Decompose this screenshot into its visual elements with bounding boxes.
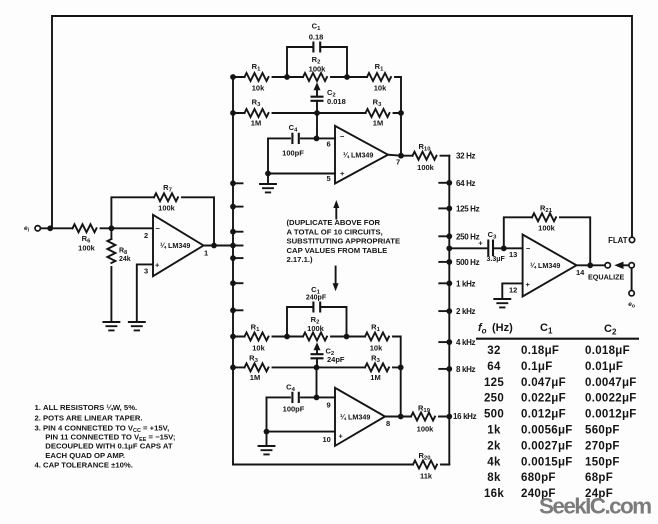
svg-text:100k: 100k (417, 425, 435, 434)
svg-text:SeekIC.com: SeekIC.com (539, 494, 651, 519)
svg-text:2. POTS ARE LINEAR TAPER.: 2. POTS ARE LINEAR TAPER. (35, 413, 143, 422)
wire: node to U2 inverting input (268, 113, 335, 138)
svg-text:8: 8 (386, 419, 390, 428)
svg-text:+: + (526, 280, 531, 289)
wire: bottom R1 line (233, 337, 401, 417)
node C3 summing junction (446, 245, 452, 251)
svg-text:68pF: 68pF (585, 472, 613, 484)
wire: bottom R3 line (233, 366, 401, 368)
potentiometer R2 body (bottom) (303, 333, 327, 341)
svg-text:1M: 1M (250, 373, 260, 382)
ground at U3 + input (494, 299, 510, 307)
capacitor C1 240pF (bottom) (287, 307, 347, 337)
svg-text:C1: C1 (540, 322, 553, 336)
resistor R1 10k (bottom right) (365, 333, 389, 341)
svg-text:125: 125 (484, 377, 504, 389)
wire: U2 output through R10 (388, 155, 449, 156)
svg-text:FLAT: FLAT (608, 236, 628, 245)
svg-text:2 kHz: 2 kHz (456, 307, 475, 316)
svg-text:250: 250 (484, 393, 504, 405)
svg-text:1k: 1k (487, 425, 501, 437)
svg-text:¼ LM349: ¼ LM349 (160, 241, 190, 250)
duplicate-section down arrow (335, 267, 337, 288)
svg-text:0.012μF: 0.012μF (521, 409, 566, 421)
svg-text:0.0027μF: 0.0027μF (521, 440, 573, 452)
capacitor C1 0.18 (top) (287, 47, 347, 77)
resistor R1 10k (top right) (367, 73, 391, 81)
ground at U1 + input (129, 322, 145, 330)
svg-text:C1: C1 (312, 22, 321, 33)
wire: node to U4 inverting input (267, 367, 336, 397)
svg-text:ei: ei (24, 225, 30, 233)
svg-text:R1: R1 (371, 323, 380, 334)
svg-text:+: + (155, 261, 160, 270)
svg-text:14: 14 (576, 268, 585, 277)
resistor R8 body (107, 239, 115, 263)
svg-text:+: + (339, 432, 344, 441)
node 64 Hz tap (439, 182, 449, 184)
svg-text:fo: fo (478, 322, 487, 336)
svg-text:A TOTAL OF 10 CIRCUITS,: A TOTAL OF 10 CIRCUITS, (287, 227, 383, 236)
svg-text:C3: C3 (488, 230, 497, 241)
pot wiper arrow (bottom) (316, 349, 318, 354)
svg-text:100pF: 100pF (283, 405, 305, 414)
svg-text:0.0015μF: 0.0015μF (521, 456, 573, 468)
svg-text:150pF: 150pF (585, 456, 620, 468)
wire: left distribution bus (232, 77, 234, 465)
svg-text:8 kHz: 8 kHz (456, 365, 475, 374)
potentiometer R2 body (303, 73, 327, 81)
svg-text:10k: 10k (252, 344, 265, 353)
pot wiper arrow (316, 89, 318, 97)
wire: C4 loop to + input and ground (268, 138, 335, 184)
wire: U1 + input to ground (137, 264, 153, 322)
svg-text:SUBSTITUTING APPROPRIATE: SUBSTITUTING APPROPRIATE (287, 237, 401, 246)
resistor R21 100k feedback (504, 217, 590, 265)
svg-text:R7: R7 (163, 183, 172, 194)
svg-text:0.018: 0.018 (327, 97, 346, 106)
wire: output summing bus (448, 156, 450, 465)
svg-text:0.18μF: 0.18μF (521, 345, 559, 357)
wire: U3 + input to ground (502, 283, 522, 299)
resistor R7 body (154, 193, 178, 201)
resistor R10 100k (413, 152, 437, 160)
svg-text:10k: 10k (374, 84, 387, 93)
svg-text:4. CAP TOLERANCE ±10%.: 4. CAP TOLERANCE ±10%. (35, 461, 133, 470)
resistor R1 10k (top left) (245, 73, 269, 81)
svg-text:100k: 100k (307, 324, 325, 333)
svg-text:R19: R19 (418, 404, 431, 415)
EQUALIZE switch contact (605, 263, 610, 268)
svg-text:125 Hz: 125 Hz (456, 204, 480, 213)
resistor R8 24k (110, 228, 112, 239)
svg-text:8k: 8k (487, 472, 501, 484)
svg-text:R3: R3 (252, 98, 261, 109)
svg-text:16k: 16k (484, 488, 504, 500)
svg-text:R1: R1 (375, 62, 384, 73)
svg-text:500: 500 (484, 409, 504, 421)
svg-text:270pF: 270pF (585, 440, 620, 452)
svg-text:1. ALL RESISTORS ¼W, 5%.: 1. ALL RESISTORS ¼W, 5%. (35, 403, 138, 412)
switch wiper arrow (614, 262, 623, 269)
wire: input to R6 (41, 227, 73, 229)
op-amp U4 1/4 LM349 (335, 388, 385, 446)
wire: R6 to op-amp U1 pin2 (101, 227, 154, 229)
resistor R3 1M (bottom right) (365, 363, 389, 371)
svg-text:7: 7 (396, 158, 400, 167)
svg-text:0.0022μF: 0.0022μF (585, 393, 637, 405)
svg-text:100pF: 100pF (282, 149, 304, 158)
capacitor C4 100pF (bottom) (292, 392, 298, 403)
svg-text:0.0056μF: 0.0056μF (521, 425, 573, 437)
wire: top rail from input node to FLAT terminal (52, 16, 632, 237)
svg-text:C4: C4 (286, 383, 295, 394)
capacitor C2 24pF (bottom) (311, 354, 324, 358)
svg-text:R8: R8 (119, 248, 127, 257)
capacitor C3 3.3uF (488, 240, 493, 257)
node 8 kHz tap (439, 368, 449, 370)
svg-text:0.01μF: 0.01μF (585, 361, 623, 373)
svg-text:680pF: 680pF (521, 472, 556, 484)
svg-text:100k: 100k (158, 204, 176, 213)
resistor R3 1M (top right) (366, 109, 390, 117)
svg-text:(DUPLICATE ABOVE FOR: (DUPLICATE ABOVE FOR (287, 218, 381, 227)
svg-text:100k: 100k (78, 244, 96, 253)
wire: bus to C3 (449, 247, 486, 249)
svg-text:12: 12 (509, 286, 517, 295)
svg-text:6: 6 (327, 140, 331, 149)
svg-text:R1: R1 (252, 62, 261, 73)
svg-text:13: 13 (509, 250, 517, 259)
resistor R19 100k (411, 413, 435, 421)
resistor R21 body (532, 213, 556, 221)
wire: R8 to ground (110, 267, 112, 322)
svg-text:10k: 10k (370, 344, 383, 353)
svg-text:24pF: 24pF (327, 355, 345, 364)
svg-text:EACH QUAD OP AMP.: EACH QUAD OP AMP. (45, 451, 125, 460)
duplicate-section up arrow (335, 204, 337, 219)
svg-text:32: 32 (487, 345, 500, 357)
svg-text:R3: R3 (373, 98, 382, 109)
resistor R1 10k (bottom left) (245, 333, 269, 341)
svg-text:0.018μF: 0.018μF (585, 345, 630, 357)
node 1 kHz tap (439, 282, 449, 284)
svg-text:100k: 100k (309, 65, 327, 74)
output terminal e_o (631, 268, 633, 290)
svg-text:240pF: 240pF (306, 294, 327, 301)
wire: top R1 line (233, 77, 401, 156)
svg-text:eo: eo (628, 301, 635, 309)
svg-text:0.022μF: 0.022μF (521, 393, 566, 405)
resistor R3 1M (top left) (245, 109, 269, 117)
svg-text:64 Hz: 64 Hz (456, 179, 475, 188)
op-amp U3 1/4 LM349 (523, 235, 577, 297)
node 250 Hz tap (439, 235, 449, 237)
svg-text:(Hz): (Hz) (492, 322, 513, 334)
svg-text:C2: C2 (604, 323, 617, 337)
svg-text:DECOUPLED WITH 0.1μF CAPS AT: DECOUPLED WITH 0.1μF CAPS AT (45, 442, 173, 451)
node 4 kHz tap (439, 341, 449, 343)
duplicate-circuit taps on left bus (233, 182, 243, 184)
wire: U3 output to switch (577, 264, 605, 266)
ground below R8 (103, 322, 119, 330)
svg-text:1M: 1M (251, 119, 261, 128)
svg-text:0.1μF: 0.1μF (521, 361, 553, 373)
svg-text:C4: C4 (289, 123, 298, 134)
svg-text:0.047μF: 0.047μF (521, 377, 566, 389)
ground at U2 + input (260, 184, 276, 192)
svg-text:0.18: 0.18 (309, 33, 324, 42)
input terminal e_i (35, 226, 40, 231)
svg-text:100k: 100k (417, 163, 435, 172)
svg-text:−: − (156, 224, 161, 233)
svg-text:¼ LM349: ¼ LM349 (340, 413, 370, 422)
svg-text:11k: 11k (420, 472, 433, 481)
svg-text:¼ LM349: ¼ LM349 (343, 151, 373, 160)
svg-text:100k: 100k (538, 224, 556, 233)
svg-text:2.17.1.): 2.17.1.) (287, 255, 314, 264)
node 125 Hz tap (439, 207, 449, 209)
svg-text:3.3μF: 3.3μF (487, 256, 506, 263)
svg-text:250 Hz: 250 Hz (456, 232, 480, 241)
op-amp U1 1/4 LM349 (153, 215, 204, 276)
svg-text:−: − (340, 132, 345, 141)
svg-text:R3: R3 (249, 354, 258, 365)
svg-text:0.0012μF: 0.0012μF (585, 409, 637, 421)
svg-text:2k: 2k (487, 440, 501, 452)
capacitor C4 100pF (top) (292, 133, 298, 144)
FLAT terminal (629, 237, 634, 242)
svg-text:2: 2 (144, 231, 148, 240)
svg-text:32 Hz: 32 Hz (456, 152, 475, 161)
resistor R3 1M (bottom left) (245, 363, 269, 371)
ground at U4 + input (259, 446, 275, 454)
svg-text:4 kHz: 4 kHz (456, 338, 475, 347)
svg-text:CAP VALUES FROM TABLE: CAP VALUES FROM TABLE (287, 246, 388, 255)
resistor R6 100k (73, 224, 97, 232)
svg-text:500 Hz: 500 Hz (456, 258, 480, 267)
op-amp U2 1/4 LM349 (335, 126, 388, 184)
svg-text:+: + (340, 169, 345, 178)
resistor R20 body (413, 461, 437, 469)
svg-text:9: 9 (327, 401, 331, 410)
svg-text:4k: 4k (487, 456, 501, 468)
svg-text:¼ LM349: ¼ LM349 (530, 261, 560, 270)
svg-text:R20: R20 (419, 451, 432, 462)
capacitor C2 0.018 (top) (311, 97, 324, 101)
wire: U1 output to left bus (204, 245, 234, 247)
svg-text:3: 3 (144, 267, 148, 276)
svg-text:R3: R3 (371, 354, 380, 365)
svg-text:+: + (478, 239, 483, 248)
resistor R7 100k feedback loop (111, 197, 214, 245)
svg-text:0.0047μF: 0.0047μF (585, 377, 637, 389)
svg-text:64: 64 (487, 361, 501, 373)
node 2 kHz tap (439, 310, 449, 312)
svg-text:1M: 1M (373, 119, 383, 128)
svg-text:EQUALIZE: EQUALIZE (588, 273, 625, 282)
svg-text:16 kHz: 16 kHz (453, 412, 477, 421)
wire: C4 loop to + input and ground (267, 397, 336, 446)
svg-text:24k: 24k (119, 256, 131, 263)
wire: U4 output through R19 (385, 416, 449, 418)
svg-text:10k: 10k (252, 84, 265, 93)
svg-text:−: − (526, 244, 531, 253)
wire: top R3 line (233, 112, 401, 114)
svg-text:560pF: 560pF (585, 425, 620, 437)
svg-text:1 kHz: 1 kHz (456, 279, 475, 288)
svg-text:10: 10 (323, 435, 331, 444)
svg-text:R10: R10 (419, 142, 432, 153)
svg-text:5: 5 (327, 174, 331, 183)
wire: C3 to U3 pin 13 (495, 247, 523, 249)
svg-text:1: 1 (204, 249, 208, 258)
svg-text:1M: 1M (370, 373, 380, 382)
node 500 Hz tap (439, 261, 449, 263)
svg-text:R1: R1 (251, 323, 260, 334)
resistor R20 11k bottom line (233, 464, 449, 466)
